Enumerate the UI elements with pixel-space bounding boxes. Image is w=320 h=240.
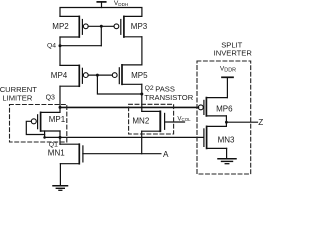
- wire row2 gate wire: [88, 74, 112, 76]
- svg-text:MP5: MP5: [131, 71, 148, 80]
- transistor MP3: [114, 16, 142, 37]
- transistor MP4: [60, 65, 88, 86]
- svg-text:PASS: PASS: [155, 84, 175, 93]
- node row1 gate junction: [100, 25, 103, 28]
- transistor MN2 pass transistor: [142, 111, 165, 131]
- wire Q4: [60, 45, 101, 47]
- wire MP3 drain down: [141, 37, 143, 65]
- svg-text:Q2: Q2: [145, 85, 154, 92]
- transistor MP1: [31, 112, 60, 131]
- svg-text:INVERTER: INVERTER: [214, 48, 253, 57]
- wire Q1: [60, 143, 79, 145]
- node row2 gate junction: [96, 74, 99, 77]
- box CURRENT LIMITER: [10, 105, 67, 143]
- svg-text:VDDH: VDDH: [114, 0, 128, 7]
- transistor MP6: [198, 98, 227, 116]
- svg-text:VCOL: VCOL: [177, 115, 191, 122]
- wire MN3 source to ground: [226, 148, 228, 158]
- ground MN1: [53, 186, 68, 191]
- transistor MP2: [60, 16, 88, 37]
- box SPLIT INVERTER: [197, 61, 251, 174]
- wire gate junction to Q4: [100, 26, 102, 45]
- node Q2: [140, 93, 143, 96]
- svg-text:Q3: Q3: [46, 94, 55, 101]
- svg-text:MP6: MP6: [216, 104, 233, 113]
- wire MP1 drain-gate tie: [44, 131, 46, 137]
- transistor MN1: [60, 144, 83, 164]
- svg-text:Z: Z: [258, 118, 263, 127]
- wire MP6 drain to Z: [225, 116, 227, 127]
- svg-text:MN3: MN3: [218, 135, 235, 144]
- svg-text:MP2: MP2: [52, 22, 69, 31]
- svg-text:VDDR: VDDR: [220, 66, 236, 74]
- wire MP1 gate loop: [26, 121, 44, 134]
- wire Q3 to MP6 gate: [60, 106, 198, 108]
- wire MN2 source to A line: [141, 131, 143, 154]
- node Z junction: [225, 121, 228, 124]
- wire Q4 to MP4: [59, 46, 61, 66]
- svg-text:MN1: MN1: [48, 148, 65, 157]
- wire A line from MN1 gate: [83, 153, 161, 155]
- node MP1 tie: [43, 136, 46, 139]
- power symbol VDDH: [97, 2, 105, 8]
- svg-text:TRANSISTOR: TRANSISTOR: [144, 93, 193, 102]
- transistor MN3: [204, 126, 227, 148]
- wire long wire to MN3 gate: [45, 136, 204, 138]
- wire Q2 from row2 gates: [97, 75, 141, 94]
- wire VDDH rail: [60, 8, 142, 17]
- wire row1 gate wire: [88, 25, 114, 27]
- wire MP2 drain to Q4: [59, 37, 61, 46]
- wire MP4 drain to Q3: [59, 86, 61, 107]
- svg-text:MN2: MN2: [132, 117, 149, 126]
- wire MN2 gate to VCOL: [165, 121, 185, 123]
- svg-text:MP4: MP4: [51, 71, 68, 80]
- ground MN3: [218, 159, 236, 164]
- power symbol VDDR: [222, 77, 233, 97]
- wire MN1 source to ground: [59, 164, 61, 186]
- box PASS TRANSISTOR: [129, 104, 174, 134]
- svg-text:MP3: MP3: [131, 22, 148, 31]
- svg-text:MP1: MP1: [49, 115, 66, 124]
- wire Q3 to MP1 drain: [41, 107, 60, 112]
- wire Z output: [226, 121, 257, 123]
- svg-text:Q4: Q4: [47, 42, 56, 49]
- transistor MP5: [112, 65, 142, 84]
- svg-text:A: A: [163, 150, 169, 159]
- svg-text:LIMITER: LIMITER: [2, 94, 32, 103]
- wire MP5 drain down to MN2: [141, 84, 143, 111]
- node long wire junction: [59, 136, 62, 139]
- node Q3: [59, 106, 62, 109]
- node Q4: [59, 44, 62, 47]
- wire MP1 drain down to Q1: [59, 131, 61, 144]
